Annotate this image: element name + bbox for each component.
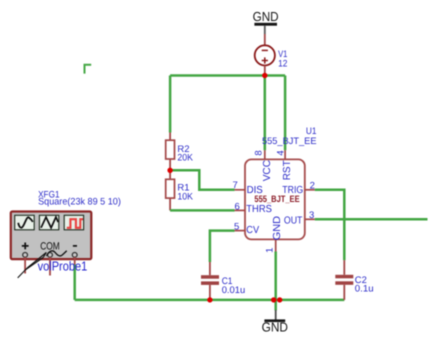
svg-text:DIS: DIS xyxy=(247,185,263,196)
junction at V1 output xyxy=(262,73,267,78)
svg-text:RST: RST xyxy=(282,160,293,180)
junction gnd/rail xyxy=(277,297,282,302)
svg-text:10K: 10K xyxy=(177,191,193,202)
svg-text:5: 5 xyxy=(234,221,239,232)
wire: OUT pin 3 to right xyxy=(315,218,428,221)
junction pin1/rail xyxy=(271,297,276,302)
wire: pin 1 down to ground xyxy=(274,252,277,311)
svg-text:GND: GND xyxy=(272,216,283,240)
svg-text:volProbe1: volProbe1 xyxy=(38,258,88,273)
function generator XFG1 xyxy=(11,212,92,260)
wire: R2/R1 junction to DIS pin 7 xyxy=(170,170,235,190)
wire from - terminal to ground rail xyxy=(74,257,76,264)
wire: CV pin 5 to C1 xyxy=(210,231,235,262)
svg-text:TRIG: TRIG xyxy=(282,185,303,196)
wire: down to RST pin 4 xyxy=(284,76,287,151)
svg-text:20K: 20K xyxy=(177,152,193,163)
wire: down to VCC pin 8 xyxy=(264,76,267,151)
ground GND (top) xyxy=(253,9,279,34)
svg-text:CV: CV xyxy=(246,225,259,236)
wire: TRIG pin 2 to C2 xyxy=(315,190,345,260)
svg-text:1: 1 xyxy=(264,248,275,253)
capacitor C2 xyxy=(335,260,353,300)
svg-text:555_BJT_EE: 555_BJT_EE xyxy=(262,136,317,147)
svg-text:Square(23k 89 5 10): Square(23k 89 5 10) xyxy=(38,197,121,208)
svg-text:GND: GND xyxy=(253,9,279,24)
svg-text:8: 8 xyxy=(254,150,265,155)
wire: down to R2 xyxy=(169,76,172,133)
resistor R1 xyxy=(166,170,175,210)
svg-text:GND: GND xyxy=(262,319,288,334)
svg-text:0.01u: 0.01u xyxy=(222,285,246,296)
junction C1/rail xyxy=(207,297,212,302)
wire stub from COM terminal xyxy=(49,257,51,275)
svg-text:4: 4 xyxy=(275,150,286,155)
resistor R2 xyxy=(166,133,175,171)
svg-text:7: 7 xyxy=(233,180,238,191)
svg-text:THRS: THRS xyxy=(246,204,272,215)
svg-text:3: 3 xyxy=(309,210,314,221)
ground GND (bottom) xyxy=(262,310,288,334)
voltage source V1 xyxy=(255,34,275,76)
svg-text:0.1u: 0.1u xyxy=(355,283,374,294)
capacitor C1 xyxy=(201,262,219,300)
svg-text:2: 2 xyxy=(310,180,315,191)
wire stub from + terminal xyxy=(24,257,26,273)
probe volProbe1 (pencil) xyxy=(18,251,67,278)
svg-text:12: 12 xyxy=(278,59,287,70)
op-amp-style IC U1 (555 timer) xyxy=(235,150,315,251)
wire: V1 junction to left xyxy=(170,74,265,77)
svg-text:OUT: OUT xyxy=(284,215,303,226)
wire: V1 junction to right xyxy=(265,74,285,77)
svg-text:VCC: VCC xyxy=(262,160,273,181)
wire stub (stray corner, top-left) xyxy=(85,65,92,74)
wire: R1 bottom to THRS pin 6 xyxy=(170,209,235,212)
wire: bottom ground rail xyxy=(75,299,345,302)
svg-text:6: 6 xyxy=(235,202,240,213)
svg-text:COM: COM xyxy=(40,240,60,252)
junction between R2 and R1 xyxy=(167,168,172,173)
